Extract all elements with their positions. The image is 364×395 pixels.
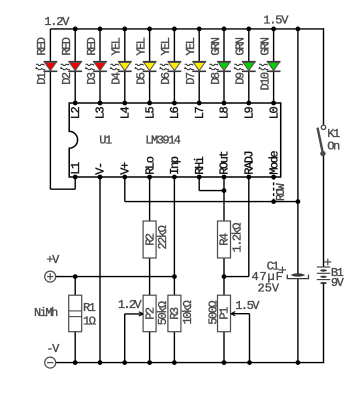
wire Mode to ROW line (dashed mode link) xyxy=(273,177,275,202)
node pin RADJ at IC bottom edge xyxy=(246,175,251,180)
wire D7 anode to top rail xyxy=(198,29,200,62)
wire R4 bottom to P1 top xyxy=(223,258,225,295)
label C1 polarity plus xyxy=(279,269,286,271)
node +V line / R1 junction xyxy=(73,274,78,279)
node pin L6 at IC top edge xyxy=(172,101,177,106)
svg-text:1.5V: 1.5V xyxy=(263,14,289,28)
wire pin V+ down xyxy=(124,177,126,202)
wire D3 cathode to pin L3 xyxy=(99,71,101,103)
svg-text:D7: D7 xyxy=(184,72,198,85)
node pin ROut at IC bottom edge xyxy=(222,175,227,180)
wire +V terminal to Inp node xyxy=(56,276,174,278)
LED D5 (YEL) xyxy=(135,62,157,72)
node -V terminal xyxy=(45,357,56,368)
svg-text:NiMh: NiMh xyxy=(34,306,58,320)
resistor R3 10k xyxy=(168,295,181,332)
node pin Inp at IC bottom edge xyxy=(172,175,177,180)
wire P1 wiper to ground rail xyxy=(249,314,251,363)
svg-text:L9: L9 xyxy=(243,106,257,119)
node top rail / D6 anode xyxy=(172,27,177,32)
wire switched supply column (rail to C1 plus) xyxy=(297,29,299,274)
wire D8 cathode to pin L8 xyxy=(223,71,225,103)
wire D10 anode to top rail xyxy=(273,29,275,62)
svg-text:D5: D5 xyxy=(134,72,148,85)
wire D3 anode to top rail xyxy=(99,29,101,62)
battery B1 9V xyxy=(317,267,330,284)
svg-text:L7: L7 xyxy=(193,106,207,119)
svg-text:ROut: ROut xyxy=(218,152,232,175)
node pin L2 at IC top edge xyxy=(73,101,78,106)
wire P2 bottom to ground rail xyxy=(149,332,151,363)
label B1 polarity plus xyxy=(324,261,331,263)
LED D3 (RED) xyxy=(85,62,107,72)
wire D10 cathode to pin L0 xyxy=(273,71,275,103)
wire D4 cathode to pin L4 xyxy=(124,71,126,103)
wire pin V- to ground rail xyxy=(99,177,101,363)
LED D10 (GRN) xyxy=(259,62,281,72)
node top rail / D3 anode xyxy=(98,27,103,32)
resistor R2 22k xyxy=(143,221,156,258)
node +V line / Inp junction xyxy=(172,274,177,279)
LED D6 (YEL) xyxy=(160,62,182,72)
potentiometer P1 500 ohm xyxy=(218,295,231,332)
wire R1 bottom to ground rail xyxy=(74,332,76,363)
svg-text:Mode: Mode xyxy=(267,151,281,175)
svg-text:22kΩ: 22kΩ xyxy=(156,225,170,249)
svg-text:1.5V: 1.5V xyxy=(235,299,260,313)
node pin L7 at IC top edge xyxy=(197,101,202,106)
wiper arrowhead P1 xyxy=(231,312,235,316)
svg-text:L3: L3 xyxy=(94,106,108,119)
node ground rail / V- xyxy=(98,360,103,365)
node pin V+ at IC bottom edge xyxy=(122,175,127,180)
wire D7 cathode to pin L7 xyxy=(198,71,200,103)
LED D1 (RED) xyxy=(36,62,58,72)
svg-text:LM3914: LM3914 xyxy=(145,133,181,147)
svg-text:D9: D9 xyxy=(234,72,248,85)
svg-text:1Ω: 1Ω xyxy=(83,314,96,328)
wire D5 cathode to pin L5 xyxy=(149,71,151,103)
wire D6 cathode to pin L6 xyxy=(173,71,175,103)
svg-text:D4: D4 xyxy=(110,72,124,85)
wire RADJ jog to R4/P1 node xyxy=(224,276,249,278)
wire up to pin L1 xyxy=(74,177,76,189)
svg-text:YEL: YEL xyxy=(159,37,173,55)
wire D2 cathode to pin L2 xyxy=(74,71,76,103)
wire battery B1 minus to ground rail xyxy=(323,284,325,363)
svg-text:GRN: GRN xyxy=(234,37,248,55)
svg-text:25V: 25V xyxy=(258,281,280,295)
wire D5 anode to top rail xyxy=(149,29,151,62)
svg-text:L4: L4 xyxy=(119,106,133,119)
node Mode link / ROW line junction xyxy=(271,199,276,204)
node ground rail / R1 xyxy=(73,360,78,365)
wire D8 anode to top rail xyxy=(223,29,225,62)
LED D8 (GRN) xyxy=(209,62,231,72)
svg-text:RED: RED xyxy=(35,37,49,55)
wire RHi jog to ROut xyxy=(199,190,224,192)
svg-text:L2: L2 xyxy=(69,106,83,119)
svg-text:U1: U1 xyxy=(99,133,112,147)
node +V terminal xyxy=(45,271,56,282)
potentiometer P2 50k xyxy=(143,295,156,332)
svg-text:1.2V: 1.2V xyxy=(44,15,70,29)
svg-text:L8: L8 xyxy=(218,106,232,119)
svg-text:L5: L5 xyxy=(143,106,157,119)
svg-text:1.2V: 1.2V xyxy=(118,298,143,312)
svg-text:RED: RED xyxy=(85,37,99,55)
svg-text:GRN: GRN xyxy=(258,37,272,55)
resistor R4 1.2k xyxy=(218,221,231,258)
node ground rail / P2 xyxy=(147,360,152,365)
svg-text:D1: D1 xyxy=(35,72,49,85)
node pin Mode at IC bottom edge xyxy=(271,175,276,180)
wire pin ROut to R4 xyxy=(223,177,225,221)
svg-text:L1: L1 xyxy=(69,162,83,175)
wire P1 bottom to ground rail xyxy=(223,332,225,363)
wire R2 to P2 xyxy=(149,258,151,295)
node pin L0 at IC top edge xyxy=(271,101,276,106)
wire D9 cathode to pin L9 xyxy=(248,71,250,103)
LED D4 (YEL) xyxy=(110,62,132,72)
svg-text:D8: D8 xyxy=(209,72,223,85)
wire switch K1 to battery B1 plus xyxy=(323,154,325,267)
wire D9 anode to top rail xyxy=(248,29,250,62)
node top rail / D5 anode xyxy=(147,27,152,32)
wire ground rail xyxy=(56,362,324,364)
node pin L4 at IC top edge xyxy=(122,101,127,106)
node pin L8 at IC top edge xyxy=(222,101,227,106)
node pin L1 at IC bottom edge xyxy=(73,175,78,180)
node ground rail / P1 wiper xyxy=(247,360,252,365)
resistor R1 1 ohm load (NiMh cell) xyxy=(69,295,82,332)
node top rail / D9 anode xyxy=(246,27,251,32)
node ground rail / P1 xyxy=(222,360,227,365)
svg-text:10kΩ: 10kΩ xyxy=(181,300,195,324)
node top rail / D8 anode xyxy=(222,27,227,32)
svg-text:YEL: YEL xyxy=(184,37,198,55)
wire R3 bottom to ground rail xyxy=(173,332,175,363)
node pin RHi at IC bottom edge xyxy=(197,175,202,180)
svg-text:V-: V- xyxy=(94,163,108,175)
LED D7 (YEL) xyxy=(185,62,207,72)
svg-text:500Ω: 500Ω xyxy=(207,301,221,325)
wire battery column top (rail to switch K1) xyxy=(323,28,325,125)
node pin L5 at IC top edge xyxy=(147,101,152,106)
wire pin RLo to R2 xyxy=(149,177,151,221)
svg-text:YEL: YEL xyxy=(110,37,124,55)
svg-text:R1: R1 xyxy=(83,301,96,315)
wire +V node to R1 top xyxy=(74,277,76,296)
wire D1 anode to top rail xyxy=(49,29,51,62)
node top rail / D2 anode xyxy=(73,27,78,32)
node top rail / switched supply column xyxy=(296,27,301,32)
IC U1 LM3914 body xyxy=(69,103,281,177)
wiper arrowhead P2 xyxy=(139,312,143,316)
svg-text:L6: L6 xyxy=(168,106,182,119)
node top rail / D7 anode xyxy=(197,27,202,32)
node ground rail / R3 xyxy=(172,360,177,365)
wire pin RHi down xyxy=(198,177,200,191)
svg-text:ROW: ROW xyxy=(275,183,288,201)
svg-text:D10: D10 xyxy=(258,72,272,90)
svg-text:RADJ: RADJ xyxy=(243,152,257,175)
switch K1 (On) xyxy=(321,125,325,129)
svg-text:L0: L0 xyxy=(267,106,281,119)
wire D1 cathode down left side xyxy=(49,71,51,189)
LED D2 (RED) xyxy=(61,62,83,72)
node ground rail / C1 xyxy=(296,360,301,365)
node top rail / D10 anode xyxy=(271,27,276,32)
svg-text:D3: D3 xyxy=(85,72,99,85)
svg-text:RLo: RLo xyxy=(143,156,157,174)
wire D1 cathode jog to L1 xyxy=(50,188,75,190)
node pin RLo at IC bottom edge xyxy=(147,175,152,180)
svg-text:GRN: GRN xyxy=(209,37,223,55)
node ground rail / P2 wiper xyxy=(122,360,127,365)
svg-text:D6: D6 xyxy=(159,72,173,85)
svg-text:RED: RED xyxy=(60,37,74,55)
svg-text:On: On xyxy=(327,140,340,154)
wire P1 wiper xyxy=(231,313,250,315)
wire top supply rail xyxy=(50,28,323,30)
wire D6 anode to top rail xyxy=(173,29,175,62)
svg-text:RHi: RHi xyxy=(193,156,207,174)
wire V+ supply line (ROW net) xyxy=(125,201,298,203)
node RHi/ROut junction xyxy=(222,188,227,193)
svg-text:1.2kΩ: 1.2kΩ xyxy=(230,223,244,253)
node ROW line / switched supply junction xyxy=(296,199,301,204)
capacitor C1 47uF 25V (electrolytic) xyxy=(291,274,304,277)
LED D9 (GRN) xyxy=(234,62,256,72)
svg-text:Inp: Inp xyxy=(168,156,182,174)
wire D2 anode to top rail xyxy=(74,29,76,62)
node R4 / P1 / RADJ junction xyxy=(222,274,227,279)
svg-text:V+: V+ xyxy=(119,162,133,175)
wire pin RADJ down xyxy=(248,177,250,277)
wire C1 minus to ground rail xyxy=(297,279,299,363)
node pin L3 at IC top edge xyxy=(98,101,103,106)
wire pin Inp down to +V node and R3 xyxy=(173,177,175,295)
wire P2 wiper to ground rail xyxy=(124,314,126,363)
node top rail / D4 anode xyxy=(122,27,127,32)
wire D4 anode to top rail xyxy=(124,29,126,62)
node pin V- at IC bottom edge xyxy=(98,175,103,180)
svg-text:D2: D2 xyxy=(60,72,74,85)
node pin L9 at IC top edge xyxy=(246,101,251,106)
svg-text:YEL: YEL xyxy=(134,37,148,55)
wire P2 wiper xyxy=(125,313,143,315)
